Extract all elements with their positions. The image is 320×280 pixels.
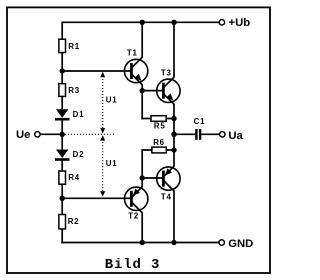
resistor R2 [59, 215, 66, 229]
svg-text:U1: U1 [106, 159, 118, 168]
wire: left rail R1 top lead [61, 22, 63, 40]
svg-text:R1: R1 [68, 42, 80, 51]
wire: R5 right lead to node E [166, 118, 174, 120]
wire: node C to T2 base [62, 197, 131, 199]
wire: node A to R3 [61, 71, 63, 84]
resistor R5 [151, 116, 166, 122]
wire: +Ub top rail [62, 21, 219, 23]
transistor T3 [157, 77, 180, 104]
svg-text:U1: U1 [106, 96, 118, 105]
wire: T4 emitter to node G [173, 150, 175, 167]
node A: R1/R3/T1-base junction [60, 68, 65, 73]
wire: node B to D2 [61, 134, 63, 150]
junction: T1 collector on +Ub rail [140, 20, 145, 25]
node D: T1 emitter / T3 base [140, 88, 145, 93]
transistor T4 [157, 166, 180, 191]
wire: T4 collector to GND rail [173, 191, 175, 243]
resistor R4 [59, 171, 66, 184]
svg-text:D2: D2 [73, 150, 85, 159]
wire: C1 to Ua terminal [201, 133, 219, 135]
wire: GND bottom rail [61, 242, 219, 244]
wire: R1 to node A [61, 53, 63, 71]
diode D2 [55, 150, 70, 161]
svg-text:Ue: Ue [16, 129, 30, 141]
svg-text:T3: T3 [161, 69, 172, 78]
wire: T3 collector to +Ub rail [173, 22, 175, 77]
svg-text:T1: T1 [127, 48, 138, 57]
wire: R6 left lead down to node H [142, 150, 152, 178]
svg-text:T2: T2 [128, 212, 139, 221]
node G: T4 emitter / R6 [171, 147, 176, 152]
svg-text:GND: GND [228, 238, 253, 250]
node H: T4 base / T2 emitter / R6 [140, 175, 145, 180]
wire: Ue terminal to node B [40, 133, 62, 135]
terminal Ua [220, 132, 225, 137]
svg-text:R3: R3 [68, 86, 80, 95]
node B: Ue input node [60, 132, 65, 137]
svg-text:R2: R2 [68, 217, 80, 226]
wire: T1 emitter to node D [141, 84, 143, 90]
svg-text:R4: R4 [68, 173, 80, 182]
node C: R4/R2/T2-base junction [60, 196, 65, 201]
junction: T3 collector on +Ub rail [171, 20, 176, 25]
dotted reference line at Ue node [65, 133, 115, 135]
terminal Ue [35, 132, 40, 137]
wire: node A to T1 base [62, 70, 131, 72]
terminal GND [219, 240, 224, 245]
wire: node H to T4 base [142, 177, 163, 179]
capacitor C1 [195, 129, 201, 140]
wire: T3 emitter to node E [173, 104, 175, 119]
node F: output node to C1 [171, 132, 176, 137]
wire: D1 to node B [61, 120, 63, 134]
wire: node F to C1 [174, 133, 195, 135]
resistor R1 [59, 39, 66, 52]
wire: T2 emitter to node H [141, 178, 143, 187]
wire: R6 right lead [166, 149, 174, 151]
diode D1 [55, 109, 70, 120]
svg-text:D1: D1 [73, 110, 85, 119]
junction: T2 collector on GND rail [140, 240, 145, 245]
resistor R6 [152, 147, 166, 153]
wire: node E to node F [173, 119, 175, 135]
wire: node D down to R5 lead [141, 91, 143, 120]
svg-text:+Ub: +Ub [229, 17, 251, 29]
wire: R3 to D1 [61, 96, 63, 109]
wire: node D to T3 base [142, 90, 163, 92]
svg-text:Bild 3: Bild 3 [105, 257, 161, 273]
wire: R2 to GND rail [61, 229, 63, 243]
wire: T2 collector to GND rail [141, 212, 143, 242]
wire: node F to node G [173, 134, 175, 150]
wire: node C to R2 [61, 198, 63, 214]
svg-text:T4: T4 [161, 192, 172, 201]
wire: R5 left lead [141, 118, 151, 120]
svg-text:R6: R6 [153, 138, 165, 147]
terminal +Ub [219, 20, 224, 25]
wire: D2 to R4 [61, 161, 63, 171]
svg-text:Ua: Ua [228, 130, 243, 142]
measure arrow U1 lower (node B to node C) [100, 135, 105, 196]
junction: T4 collector on GND rail [171, 240, 176, 245]
measure arrow U1 upper (node A to node B) [100, 72, 105, 134]
resistor R3 [59, 84, 66, 97]
svg-text:C1: C1 [194, 117, 206, 126]
node E: T3 emitter / R5 [171, 116, 176, 121]
transistor T2 [125, 187, 148, 213]
wire: R4 to node C [61, 184, 63, 198]
svg-text:R5: R5 [154, 121, 166, 130]
wire: T1 collector to +Ub rail [141, 22, 143, 57]
transistor T1 [124, 57, 147, 85]
